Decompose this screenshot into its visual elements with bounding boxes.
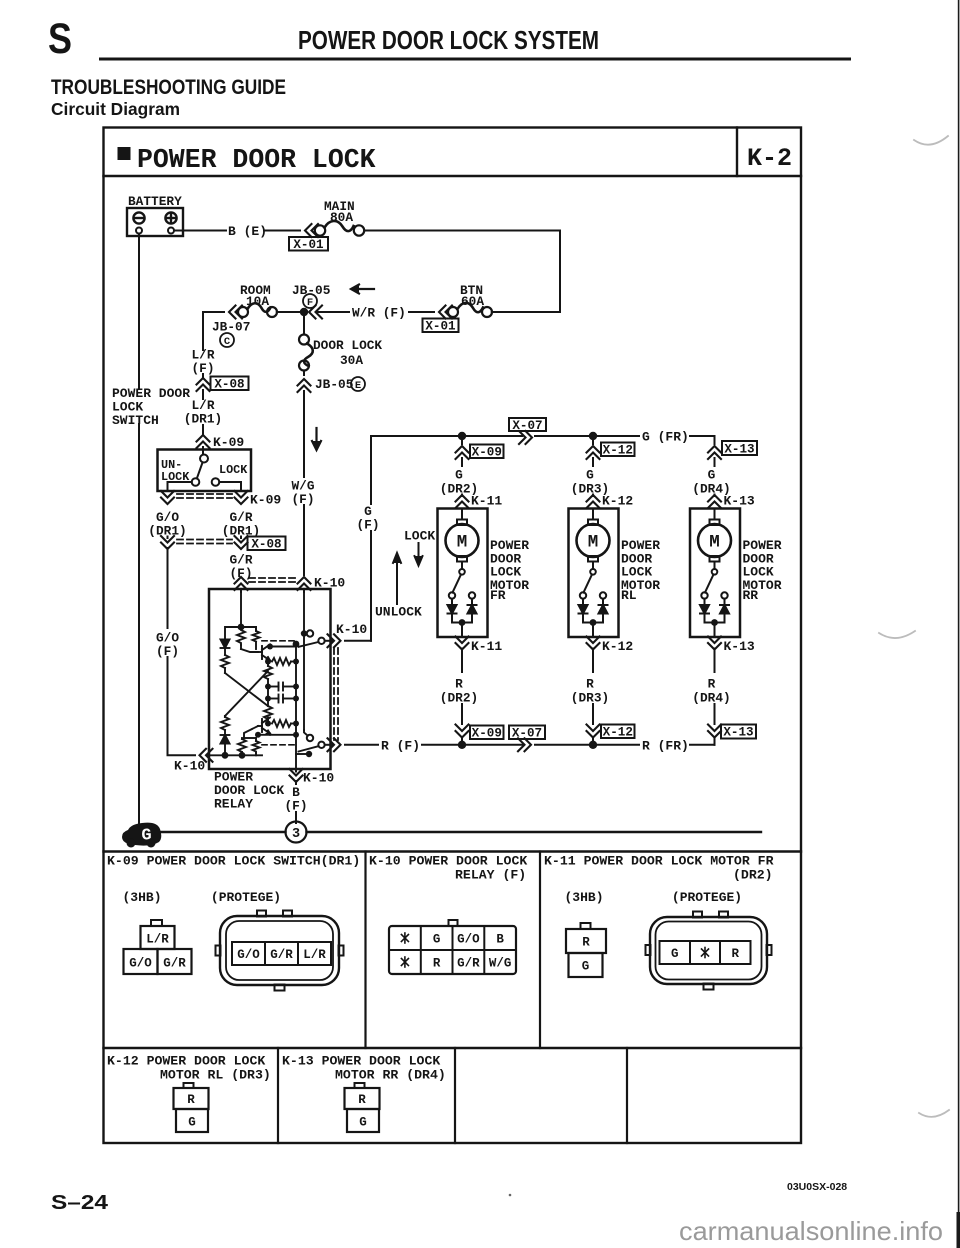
svg-text:R: R	[455, 677, 463, 692]
ground rail	[141, 831, 286, 833]
svg-text:JB-07: JB-07	[212, 320, 250, 335]
svg-text:03U0SX-028: 03U0SX-028	[787, 1181, 847, 1193]
connector box X-09	[470, 445, 504, 460]
wire to G riser	[345, 640, 371, 642]
diode D1	[221, 640, 230, 649]
connector box X-07 top	[509, 418, 546, 433]
svg-text:R (FR): R (FR)	[642, 739, 689, 754]
ground symbol (body ground)	[122, 823, 161, 848]
svg-text:K-10: K-10	[303, 771, 334, 786]
svg-text:X-09: X-09	[472, 727, 502, 741]
svg-text:R: R	[433, 957, 441, 971]
wire	[167, 537, 169, 539]
svg-text:UNLOCK: UNLOCK	[375, 605, 422, 620]
wire collector to bus	[270, 645, 294, 647]
wire	[714, 704, 716, 724]
wire	[303, 505, 305, 575]
wire	[240, 537, 242, 539]
svg-text:FR: FR	[490, 588, 506, 603]
connector chevron ROOM	[229, 306, 242, 319]
svg-text:X-01: X-01	[293, 238, 324, 252]
relay ground leg B(F)	[295, 769, 297, 772]
svg-text:G/R: G/R	[270, 948, 293, 962]
K-11 3HB connector	[566, 923, 606, 977]
crossing wire B	[225, 671, 268, 716]
K-2 cell divider	[736, 128, 738, 177]
transistor Q1	[261, 646, 263, 659]
K-09 3HB connector	[124, 920, 192, 974]
battery B1	[127, 208, 183, 236]
connector chevron K-10 left	[200, 749, 213, 762]
scan artifact arc mid right	[879, 631, 915, 638]
wire	[202, 425, 204, 434]
svg-text:LOCK: LOCK	[161, 470, 190, 484]
svg-text:W/R (F): W/R (F)	[352, 306, 406, 321]
wire base Q2 from crossing	[224, 716, 226, 717]
svg-text:X-08: X-08	[214, 378, 244, 392]
transistor Q2	[261, 719, 263, 732]
center bus	[295, 644, 297, 769]
wire	[714, 495, 716, 497]
svg-text:10A: 10A	[246, 294, 269, 309]
svg-text:K-11 POWER DOOR LOCK MOTOR FR: K-11 POWER DOOR LOCK MOTOR FR	[544, 854, 774, 869]
connector chevron K-10 right	[298, 577, 311, 590]
wire	[303, 371, 305, 376]
resistor R5	[264, 706, 272, 719]
svg-text:TROUBLESHOOTING GUIDE: TROUBLESHOOTING GUIDE	[51, 76, 286, 99]
wire	[535, 744, 591, 746]
svg-text:G/O: G/O	[457, 933, 480, 947]
svg-text:G: G	[671, 947, 679, 961]
relay output bottom wire	[325, 744, 332, 746]
wire from rail	[461, 436, 463, 444]
svg-text:K-13: K-13	[724, 494, 755, 509]
connector chevron K-12 bottom	[587, 637, 600, 650]
table row divider	[104, 1047, 802, 1049]
wire	[690, 741, 715, 745]
svg-text:R: R	[586, 677, 594, 692]
connector chevron K-12 top	[587, 495, 600, 508]
wire	[714, 458, 716, 466]
wire to left column	[225, 627, 241, 639]
svg-text:X-08: X-08	[251, 538, 281, 552]
wire G/O to relay	[168, 657, 196, 755]
direction arrow left	[351, 285, 374, 294]
svg-text:BATTERY: BATTERY	[128, 194, 182, 209]
svg-text:80A: 80A	[330, 210, 353, 225]
wire	[202, 390, 204, 399]
connector chevron R rail	[518, 738, 531, 751]
scan artifact arc top right	[914, 136, 948, 145]
connector chevron X-13	[708, 446, 721, 459]
connector box X-13	[722, 441, 757, 457]
lock arrow down	[415, 543, 423, 566]
mech link dashes bottom	[262, 744, 295, 746]
switch wire left	[168, 482, 192, 491]
svg-text:R: R	[732, 947, 740, 961]
fuse DOOR LOCK 30A	[299, 335, 313, 371]
connector chevron K-11 bottom	[456, 637, 469, 650]
wire	[535, 435, 591, 437]
door lock switch S1 box	[158, 450, 252, 492]
svg-text:RL: RL	[621, 588, 637, 603]
K-12 connector	[174, 1083, 209, 1132]
wire	[267, 679, 269, 699]
wire	[295, 812, 297, 823]
svg-text:X-13: X-13	[723, 726, 753, 740]
wire R(F) to junction	[422, 744, 462, 746]
svg-text:X-07: X-07	[512, 727, 542, 741]
svg-text:K-13 POWER DOOR LOCK: K-13 POWER DOOR LOCK	[282, 1054, 440, 1069]
relay interior	[209, 592, 325, 769]
component label POWER DOOR LOCK MOTOR RR	[743, 538, 782, 603]
svg-text:R: R	[582, 936, 590, 950]
capacitor C2	[268, 698, 279, 700]
svg-text:60A: 60A	[461, 294, 484, 309]
svg-text:R (F): R (F)	[381, 739, 420, 754]
svg-text:(PROTEGE): (PROTEGE)	[211, 890, 281, 905]
svg-text:(DR2): (DR2)	[733, 868, 773, 883]
wire	[461, 458, 463, 466]
svg-text:G: G	[582, 960, 590, 974]
diode D2	[221, 735, 230, 744]
fuse BTN 60A	[448, 303, 492, 317]
wire	[461, 704, 463, 724]
row1 divider K-10/K-11	[539, 852, 541, 1049]
wire into switch	[202, 447, 204, 453]
connector chevron JB-05	[309, 306, 322, 319]
top rail G(FR)	[458, 432, 466, 440]
switch contact left	[192, 478, 200, 486]
connector chevron X-09	[456, 446, 469, 459]
motor M3 power door lock motor RR	[690, 509, 740, 638]
wire G(F) riser	[370, 531, 372, 641]
svg-text:(3HB): (3HB)	[564, 890, 603, 905]
speck	[509, 1194, 512, 1197]
wire	[592, 495, 594, 497]
connector box X-08	[211, 377, 249, 392]
connector chevron K-09 right	[235, 491, 248, 504]
K-10 relay connector grid	[389, 920, 516, 974]
svg-text:RELAY (F): RELAY (F)	[455, 868, 526, 883]
svg-text:G: G	[586, 468, 594, 483]
svg-text:X-12: X-12	[603, 444, 633, 458]
connector chevron K-10 G/R	[235, 577, 248, 590]
switch arm	[197, 463, 203, 479]
svg-text:K-11: K-11	[471, 639, 502, 654]
wire W/G inside	[303, 592, 305, 633]
connector chevron X-01	[305, 224, 318, 237]
wire G/R inside	[240, 592, 242, 627]
row2 divider 3	[626, 1048, 628, 1143]
connector chevron X-13 bottom	[708, 725, 721, 738]
connector dashes	[177, 494, 232, 498]
row2 divider 1	[277, 1048, 279, 1143]
wire	[690, 436, 715, 440]
wire battery negative down to ground	[138, 234, 140, 389]
wire to right rail	[364, 230, 560, 232]
motor M2 power door lock motor RL	[569, 509, 619, 638]
svg-text:L/R: L/R	[146, 933, 169, 947]
connector chevron X-12	[587, 446, 600, 459]
connector chevron X-08 right	[235, 536, 248, 549]
svg-text:K-13: K-13	[724, 639, 755, 654]
svg-text:G/O: G/O	[237, 948, 260, 962]
svg-text:(DR2): (DR2)	[440, 691, 478, 706]
wire	[295, 781, 297, 784]
title bullet	[118, 147, 131, 160]
wire	[714, 649, 716, 673]
wire W/G down	[303, 391, 305, 477]
connector chevron JB-05 E	[298, 379, 311, 392]
wire R(F)	[345, 744, 378, 746]
svg-text:X-09: X-09	[472, 446, 502, 460]
svg-text:E: E	[355, 380, 361, 392]
connector chevron K-10 out top	[328, 634, 341, 647]
connector dashes	[177, 540, 232, 544]
K-11 PROTEGE connector	[646, 912, 772, 990]
svg-text:B: B	[496, 933, 504, 947]
crossing wire A	[225, 673, 268, 706]
svg-text:K-12 POWER DOOR LOCK: K-12 POWER DOOR LOCK	[107, 1054, 265, 1069]
connector box X-09 bottom	[470, 726, 504, 741]
row2 divider 2	[454, 1048, 456, 1143]
title bar separator	[104, 175, 802, 177]
svg-text:DOOR LOCK: DOOR LOCK	[313, 338, 382, 353]
wire to right rail	[492, 311, 560, 313]
connector box X-07 bottom	[509, 726, 545, 741]
capacitor C1	[268, 686, 279, 688]
wire	[202, 374, 204, 377]
svg-text:G: G	[455, 468, 463, 483]
relay contact fixed bottom	[304, 730, 308, 736]
wire	[409, 311, 434, 313]
row1 divider K-09/K-10	[364, 852, 366, 1049]
wire	[277, 311, 302, 313]
relay coil L1	[237, 627, 245, 645]
component label POWER DOOR LOCK MOTOR FR	[490, 538, 529, 603]
svg-text:LOCK: LOCK	[404, 529, 435, 544]
connector chevron X-12 bottom	[587, 725, 600, 738]
svg-text:JB-05: JB-05	[292, 283, 331, 298]
svg-text:30A: 30A	[340, 353, 363, 368]
svg-text:G/R: G/R	[163, 957, 186, 971]
connector box X-08	[248, 537, 286, 552]
wire from rail	[592, 436, 594, 444]
junction circle C	[220, 333, 234, 348]
svg-text:R: R	[708, 677, 716, 692]
resistor R2	[224, 716, 226, 717]
connector chevron K-10 out bottom	[328, 738, 341, 751]
svg-text:X-12: X-12	[603, 726, 633, 740]
motor M1 power door lock motor FR	[438, 509, 488, 638]
component label POWER DOOR LOCK MOTOR RL	[621, 538, 660, 603]
relay contact fixed top	[304, 633, 307, 635]
scan artifact arc bottom right	[919, 1110, 949, 1117]
switch wire right	[219, 482, 241, 491]
svg-text:R: R	[187, 1093, 195, 1107]
wire right rail down	[559, 231, 561, 313]
wire	[592, 704, 594, 724]
junction circle F	[303, 294, 317, 309]
svg-text:B (E): B (E)	[228, 224, 267, 239]
svg-text:SWITCH: SWITCH	[112, 413, 159, 428]
svg-text:K-12: K-12	[602, 639, 633, 654]
svg-text:G (FR): G (FR)	[642, 430, 689, 445]
ground junction circle 3	[286, 822, 307, 843]
svg-text:MOTOR RR (DR4): MOTOR RR (DR4)	[335, 1068, 446, 1083]
svg-text:LOCK: LOCK	[219, 463, 248, 477]
svg-text:C: C	[224, 336, 231, 348]
junction node	[300, 308, 308, 316]
wire B(E)	[174, 230, 226, 232]
relay output top wire	[325, 640, 332, 642]
mech link dashes top	[262, 640, 295, 642]
wire	[461, 649, 463, 673]
svg-text:S–24: S–24	[51, 1192, 109, 1214]
bottom rail inside relay	[209, 754, 262, 756]
svg-text:X-07: X-07	[512, 419, 542, 433]
connector box X-12 bottom	[601, 725, 635, 740]
connector box X-12	[601, 443, 635, 458]
wire G/R into relay	[240, 589, 242, 592]
wire	[714, 738, 716, 745]
svg-text:POWER DOOR LOCK SYSTEM: POWER DOOR LOCK SYSTEM	[298, 25, 599, 55]
svg-text:JB-05: JB-05	[315, 377, 354, 392]
connector chevron K-09 left	[161, 491, 174, 504]
connector chevron X-08	[197, 378, 210, 391]
wire	[264, 230, 300, 232]
wire from rail	[714, 436, 716, 444]
svg-text:X-01: X-01	[425, 320, 456, 334]
svg-text:K-09: K-09	[250, 493, 281, 508]
connector chevron K-10 bottom	[290, 769, 303, 782]
connector chevron BTN	[439, 306, 452, 319]
svg-text:RELAY: RELAY	[214, 797, 253, 812]
outer border frame	[104, 128, 802, 1144]
svg-text:MOTOR RL (DR3): MOTOR RL (DR3)	[160, 1068, 271, 1083]
svg-text:Circuit Diagram: Circuit Diagram	[51, 99, 180, 119]
svg-text:3: 3	[292, 827, 300, 842]
svg-text:G: G	[359, 1116, 367, 1130]
resistor R1	[221, 655, 229, 668]
wire	[316, 311, 349, 313]
relay contact arm bottom	[318, 742, 324, 748]
switch pole	[200, 455, 208, 463]
svg-text:(3HB): (3HB)	[122, 890, 161, 905]
svg-text:POWER DOOR LOCK: POWER DOOR LOCK	[137, 145, 376, 175]
relay U1 POWER DOOR LOCK RELAY box	[209, 589, 331, 769]
svg-text:(F): (F)	[356, 518, 379, 533]
wire	[461, 495, 463, 497]
svg-text:G: G	[141, 827, 151, 846]
relay contact arm top	[318, 638, 324, 644]
relay coil L2	[238, 739, 246, 754]
junction circle E	[351, 377, 365, 392]
svg-text:(DR3): (DR3)	[571, 691, 609, 706]
table row 1 top line	[104, 850, 802, 852]
svg-text:K-2: K-2	[747, 144, 792, 173]
connector chevron X-07 top	[519, 431, 532, 444]
wire	[371, 436, 460, 504]
header rule	[99, 58, 851, 61]
svg-text:G: G	[708, 468, 716, 483]
wire	[461, 738, 463, 745]
K-09 PROTEGE connector	[216, 911, 344, 991]
connector chevron K-13 bottom	[708, 637, 721, 650]
switch contact right	[212, 478, 220, 486]
wire row2 left	[203, 311, 224, 313]
svg-text:G: G	[188, 1116, 196, 1130]
svg-text:(DR4): (DR4)	[692, 691, 730, 706]
wire W/G continues	[303, 636, 305, 730]
wire	[592, 649, 594, 673]
connector dashes	[249, 578, 296, 582]
resistor R6	[265, 721, 271, 727]
connector box X-01	[289, 237, 328, 252]
fuse ROOM 10A	[238, 303, 277, 317]
wire	[224, 668, 226, 673]
svg-text:K-10: K-10	[336, 622, 367, 637]
svg-text:G/O: G/O	[129, 957, 152, 971]
connector chevron K-09	[197, 435, 210, 448]
svg-text:S: S	[48, 15, 72, 63]
resistor R4	[264, 666, 272, 679]
svg-text:L/R: L/R	[303, 948, 326, 962]
connector box X-01 second	[423, 319, 459, 334]
svg-text:K-10: K-10	[174, 759, 205, 774]
bottom rail R(FR)	[462, 744, 522, 746]
svg-text:F: F	[307, 297, 313, 309]
svg-text:G: G	[433, 933, 441, 947]
svg-text:carmanualsonline.info: carmanualsonline.info	[679, 1216, 943, 1246]
svg-text:W/G: W/G	[489, 957, 512, 971]
svg-text:(PROTEGE): (PROTEGE)	[672, 890, 742, 905]
wire	[224, 648, 226, 655]
page edge scan line	[958, 0, 960, 1248]
svg-text:RR: RR	[743, 588, 759, 603]
wire	[267, 699, 269, 706]
connector chevron K-11 top	[456, 495, 469, 508]
wire	[592, 738, 594, 745]
direction arrow down	[312, 428, 321, 450]
wire into relay	[303, 589, 305, 592]
wire emitter to bus	[270, 734, 294, 735]
node	[238, 624, 245, 631]
svg-text:K-12: K-12	[602, 494, 633, 509]
resistor R3	[268, 661, 270, 663]
fuse MAIN 80A	[315, 221, 364, 236]
connector chevron K-13 top	[708, 495, 721, 508]
wire	[592, 458, 594, 466]
wire into relay	[207, 754, 209, 756]
connector boundary dashes vertical	[334, 648, 338, 740]
connector chevron X-09 bottom	[456, 725, 469, 738]
svg-text:R: R	[358, 1093, 366, 1107]
svg-text:G/R: G/R	[457, 957, 480, 971]
K-13 connector	[345, 1083, 380, 1132]
connector chevron X-08 left	[161, 536, 174, 549]
svg-text:X-13: X-13	[724, 443, 754, 457]
wire G/O down	[167, 548, 169, 628]
svg-text:K-09: K-09	[213, 435, 244, 450]
svg-text:K-10 POWER DOOR LOCK: K-10 POWER DOOR LOCK	[369, 854, 527, 869]
connector box X-13 bottom	[721, 725, 756, 740]
wire JB-07 branch	[202, 312, 204, 350]
wire DOOR LOCK 30A branch	[303, 312, 305, 335]
svg-text:K-11: K-11	[471, 494, 502, 509]
svg-text:K-09 POWER DOOR LOCK SWITCH(DR: K-09 POWER DOOR LOCK SWITCH(DR1)	[107, 854, 360, 869]
